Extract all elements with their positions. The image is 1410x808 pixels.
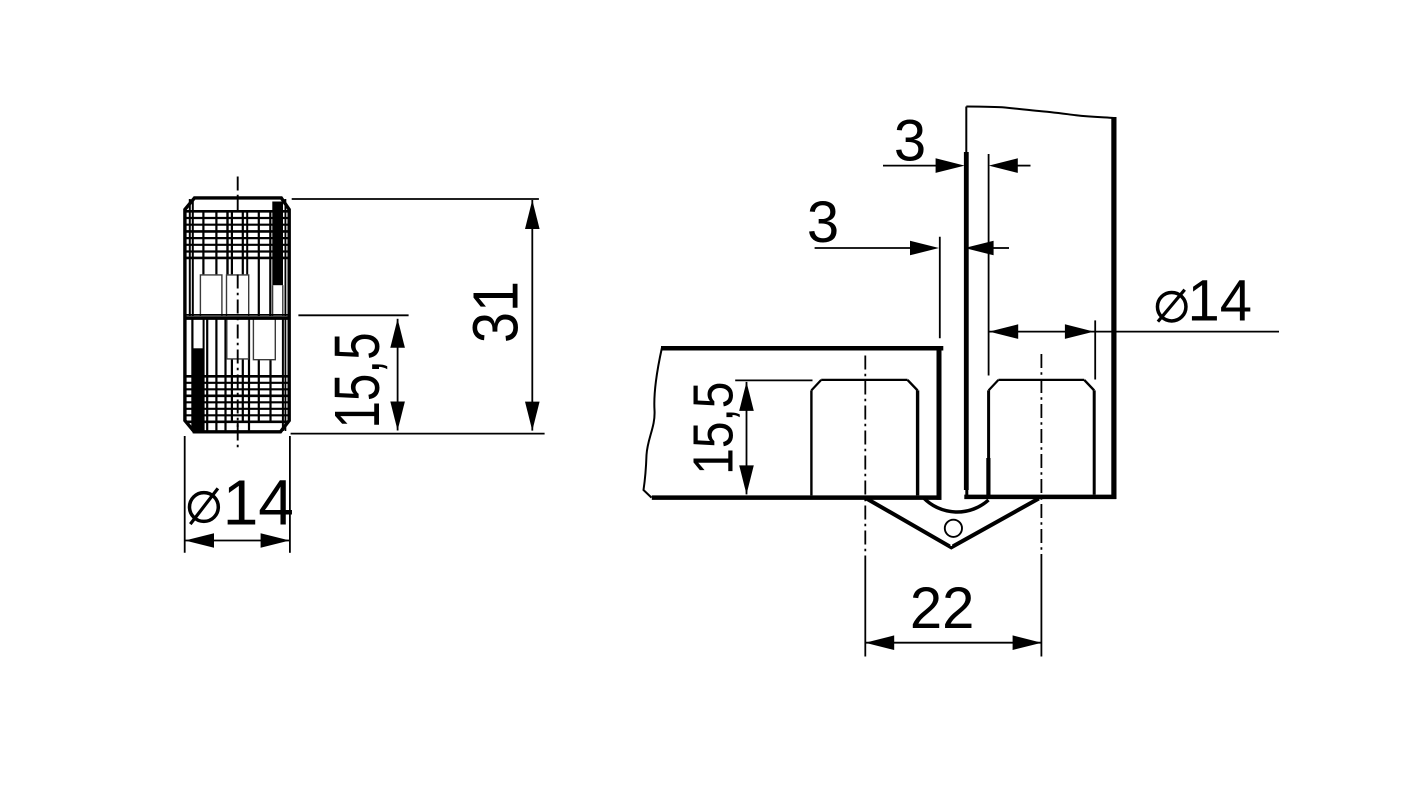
hinge knuckle arc below gap [924, 498, 989, 512]
knurl horizontal lines bottom zone [187, 376, 288, 422]
knurl vertical lines top half [190, 199, 286, 316]
dimension 15,5 right: top arrowhead [739, 382, 754, 411]
white slot under top-right bar [273, 285, 283, 316]
panel hole left edge [810, 390, 812, 495]
horizontal panel left break line [644, 348, 663, 498]
door hole top-left chamfer [989, 380, 999, 391]
door hole left edge lower thick part [986, 458, 990, 496]
svg-text:3: 3 [807, 190, 839, 255]
svg-text:14: 14 [223, 467, 294, 539]
insert centerline re-draw through middle slots and lower knurl [237, 275, 239, 431]
dimension 15,5 right: dimension line [746, 382, 748, 495]
dimension 15,5 right: bottom arrowhead [739, 465, 754, 494]
dimension o14 left: dimension line with arrowheads [185, 540, 290, 542]
horizontal panel right end face [937, 346, 942, 500]
dimension 3 top: extension line (door hole left edge) [988, 154, 990, 376]
svg-text:14: 14 [1188, 269, 1253, 334]
white reflection slot bottom-center [227, 320, 249, 359]
svg-text:15,5: 15,5 [681, 382, 744, 475]
white reflection slot top-left [200, 274, 222, 316]
dimension 15,5 left: dimension line with arrowheads [397, 319, 399, 431]
black knurl bar top-right [272, 202, 283, 286]
white reflection slot bottom-right [253, 320, 275, 360]
insert body outline (chamfered rectangle) [185, 198, 289, 432]
dimension 15,5 left: extension line [298, 314, 408, 316]
dimension 22: right arrowhead [1013, 635, 1042, 650]
horizontal panel bottom edge [652, 495, 942, 500]
door hole right edge [1093, 390, 1096, 494]
dimension 22: dimension line [866, 642, 1041, 644]
svg-text:31: 31 [460, 281, 532, 343]
dimension 3 middle: right arrowhead [965, 241, 994, 256]
dimension 3 top: tail line left [883, 165, 936, 167]
black knurl bar bottom-left [193, 348, 204, 433]
hinge V strap tip notch [950, 537, 952, 546]
door hole top edge [998, 379, 1084, 381]
mid joint line thin [185, 314, 289, 316]
door left face bottom stub [965, 490, 968, 496]
door left face thick part [964, 152, 969, 490]
svg-text:3: 3 [894, 109, 926, 174]
dimension 3 middle: tail line left [815, 247, 910, 249]
hinge V strap [866, 499, 1038, 548]
door hole top-right chamfer [1084, 380, 1094, 391]
svg-text:15,5: 15,5 [321, 333, 393, 429]
door hole centerline (dash-dot + solid extension) [1040, 354, 1042, 657]
door left face thin upper part [965, 107, 967, 153]
dimension 3 top: right arrowhead [989, 158, 1018, 173]
dimension 31: dimension line with arrowheads [531, 200, 533, 431]
door right face [1111, 117, 1116, 499]
dimension o14 left: extension lines [184, 436, 186, 553]
mid joint line thick [185, 316, 289, 320]
dimension o14 right: extension line (hole right edge) [1094, 320, 1096, 379]
knurl horizontal lines top zone [187, 211, 288, 258]
door bottom edge [964, 495, 1116, 500]
knurl vertical lines bottom half [192, 318, 285, 431]
door hole left edge [987, 390, 990, 460]
dimension 3 middle: tail line right [993, 247, 1009, 249]
dimension 15,5 right: extension line [735, 379, 812, 381]
svg-text:22: 22 [910, 576, 975, 641]
panel hole right edge [916, 390, 919, 495]
dimension 3 middle: left arrowhead [910, 241, 939, 256]
insert centerline re-draw over white body top/bottom bands [237, 199, 239, 431]
white slot bottom-left [194, 320, 202, 349]
dimension 3 top: tail line right [1017, 165, 1031, 167]
dimension o14 right: right arrowhead [1065, 324, 1094, 339]
dimension o14 right: left arrowhead [989, 324, 1018, 339]
panel hole top edge [821, 379, 907, 381]
panel hole top-left chamfer [811, 380, 821, 391]
dimension 3 middle: extension line (panel end face) [939, 237, 941, 338]
dimension 31: extension lines [292, 198, 539, 200]
dimension o14 right: diameter symbol [1157, 292, 1186, 321]
horizontal panel top edge [661, 346, 943, 351]
dimension 3 top: left arrowhead [936, 158, 965, 173]
dimension 22: left arrowhead [865, 635, 894, 650]
centerline of insert (vertical dash-dot) [237, 177, 239, 450]
slot outlines [200, 275, 282, 360]
door top break line (wavy) [966, 107, 1114, 119]
dimension o14 left: diameter symbol [190, 493, 219, 522]
white reflection slot top-center [227, 274, 249, 316]
hinge pivot circle [945, 520, 962, 537]
left hole centerline (dash-dot + solid extension) [864, 356, 866, 657]
panel hole top-right chamfer [908, 380, 918, 391]
dimension o14 right: dimension line [990, 331, 1280, 333]
